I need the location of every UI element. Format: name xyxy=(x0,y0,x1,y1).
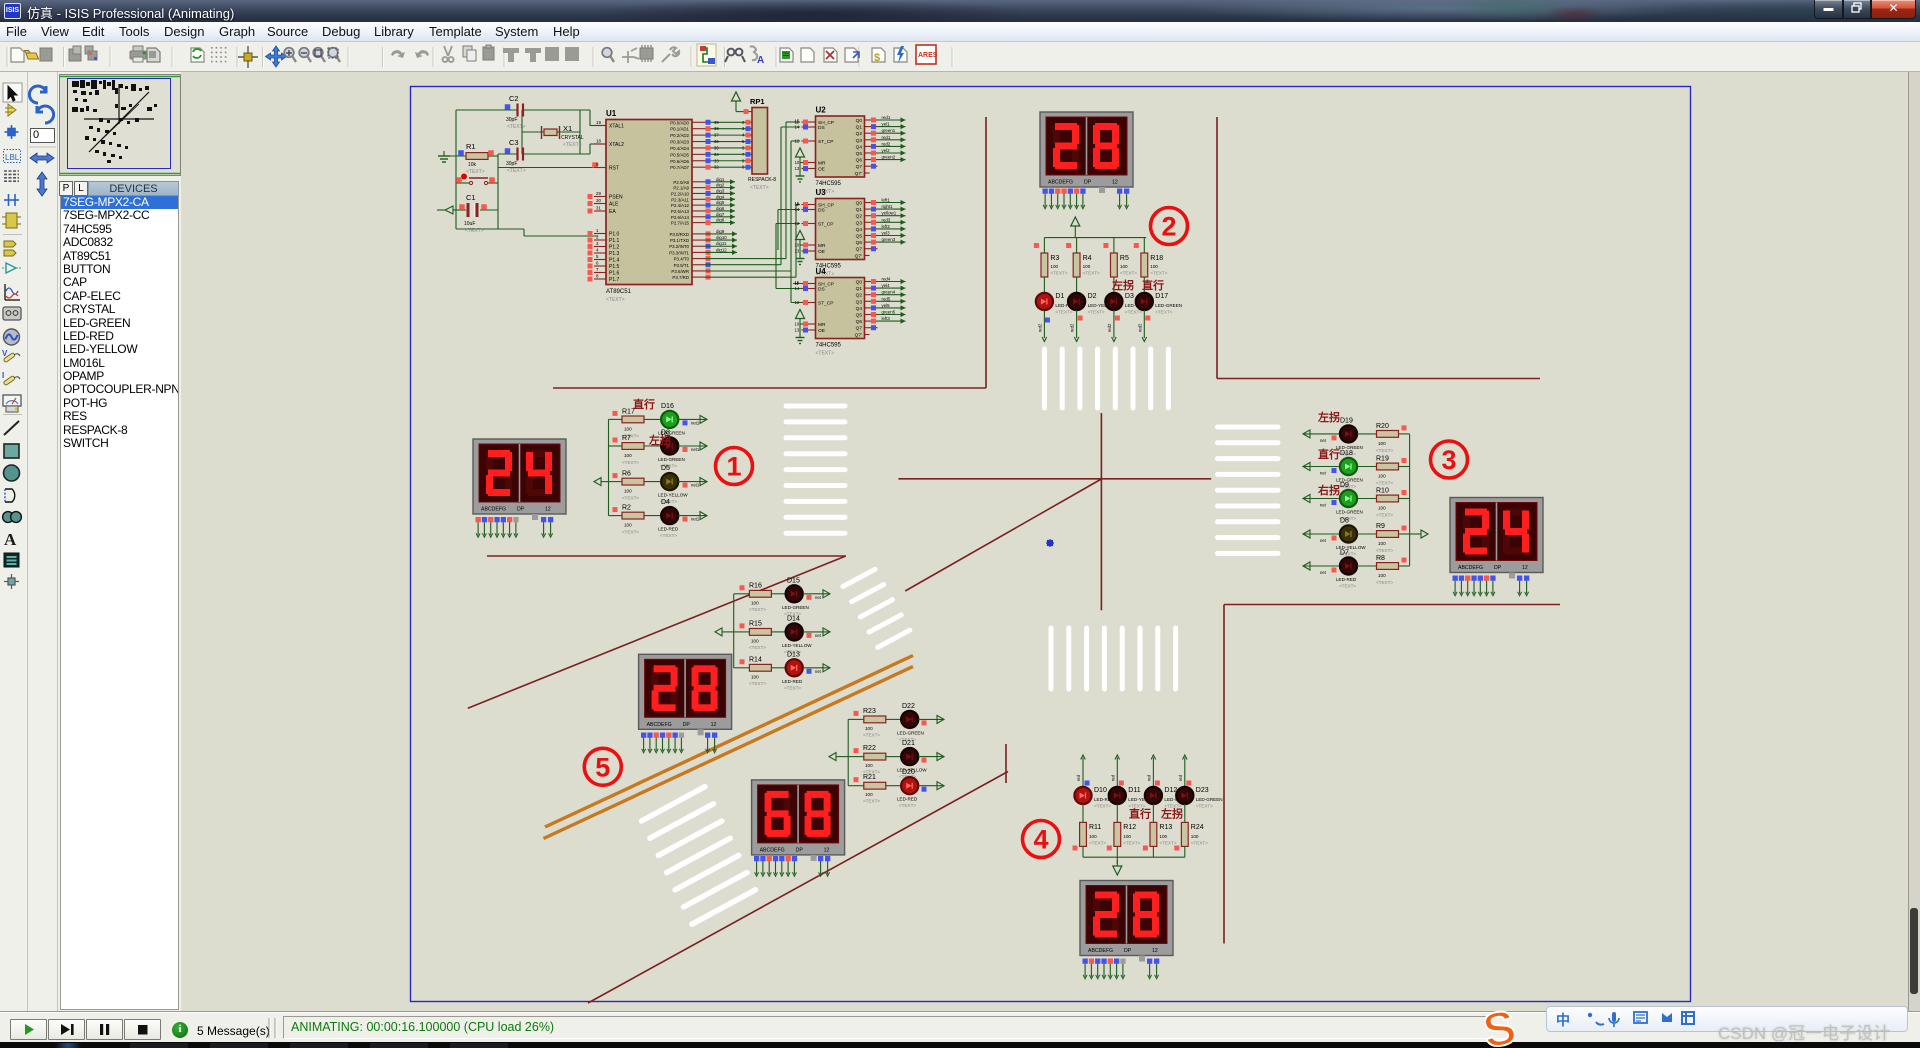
svg-text:dig5: dig5 xyxy=(716,200,725,205)
svg-text:net: net xyxy=(1320,438,1327,443)
svg-text:D16: D16 xyxy=(661,403,674,410)
svg-text:red4: red4 xyxy=(882,277,891,282)
svg-text:100: 100 xyxy=(624,523,632,528)
svg-text:Q1: Q1 xyxy=(856,207,863,213)
svg-text:D5: D5 xyxy=(661,465,670,472)
svg-text:D14: D14 xyxy=(787,615,800,622)
svg-text:P0.7/AD7: P0.7/AD7 xyxy=(670,165,689,170)
svg-text:P0.2/AD2: P0.2/AD2 xyxy=(670,133,689,138)
svg-text:30pF: 30pF xyxy=(506,161,517,167)
svg-text:10k: 10k xyxy=(468,162,477,168)
svg-text:100: 100 xyxy=(1120,264,1128,269)
svg-text:R22: R22 xyxy=(863,745,876,752)
svg-text:<TEXT>: <TEXT> xyxy=(863,732,880,737)
svg-text:LED-GREEN: LED-GREEN xyxy=(782,605,809,610)
svg-text:Q4: Q4 xyxy=(856,227,863,233)
svg-text:<TEXT>: <TEXT> xyxy=(465,228,484,234)
svg-text:Q6: Q6 xyxy=(856,240,863,246)
svg-text:DP: DP xyxy=(517,507,525,513)
svg-text:100: 100 xyxy=(1191,834,1199,839)
svg-text:18: 18 xyxy=(596,139,601,144)
svg-text:100: 100 xyxy=(865,792,873,797)
svg-text:38: 38 xyxy=(714,126,719,131)
svg-text:2: 2 xyxy=(596,235,599,240)
svg-text:100: 100 xyxy=(624,489,632,494)
svg-text:R10: R10 xyxy=(1376,488,1389,495)
svg-text:net: net xyxy=(815,669,822,674)
svg-text:R18: R18 xyxy=(1150,255,1163,262)
svg-text:<TEXT>: <TEXT> xyxy=(1150,271,1167,276)
svg-text:4: 4 xyxy=(1033,825,1048,855)
svg-text:DS: DS xyxy=(818,125,825,131)
svg-text:D20: D20 xyxy=(902,769,915,776)
svg-text:right1: right1 xyxy=(882,204,894,209)
svg-text:net: net xyxy=(1320,570,1327,575)
svg-text:red2: red2 xyxy=(1137,323,1142,332)
svg-text:yel4: yel4 xyxy=(882,283,891,288)
svg-text:dig11: dig11 xyxy=(716,241,727,246)
svg-text:10: 10 xyxy=(795,160,800,165)
svg-text:R2: R2 xyxy=(622,505,631,512)
svg-text:C1: C1 xyxy=(466,193,476,202)
svg-text:Q3: Q3 xyxy=(856,220,863,226)
svg-text:OE: OE xyxy=(818,328,825,334)
svg-text:R1: R1 xyxy=(466,142,476,151)
svg-text:32: 32 xyxy=(714,165,719,170)
svg-text:red1: red1 xyxy=(882,115,891,120)
svg-text:PSEN: PSEN xyxy=(609,195,623,201)
svg-text:green5: green5 xyxy=(882,310,896,315)
svg-text:D18: D18 xyxy=(1340,450,1353,457)
svg-text:直行: 直行 xyxy=(1129,807,1151,821)
svg-text:D13: D13 xyxy=(787,651,800,658)
svg-text:P0.3/AD3: P0.3/AD3 xyxy=(670,140,689,145)
svg-text:left1: left1 xyxy=(882,198,891,203)
svg-text:100: 100 xyxy=(751,600,759,605)
svg-text:D15: D15 xyxy=(787,577,800,584)
svg-text:dig6: dig6 xyxy=(716,206,725,211)
svg-text:30pF: 30pF xyxy=(506,117,517,123)
svg-text:12: 12 xyxy=(1152,948,1158,954)
svg-text:左拐: 左拐 xyxy=(1111,278,1134,292)
svg-text:D23: D23 xyxy=(1196,787,1209,794)
svg-text:LED-GREEN: LED-GREEN xyxy=(1196,797,1223,802)
svg-text:Q5: Q5 xyxy=(856,151,863,157)
svg-text:LED-GREEN: LED-GREEN xyxy=(897,730,924,735)
svg-text:R3: R3 xyxy=(1050,255,1059,262)
svg-text:ST_CP: ST_CP xyxy=(818,301,833,307)
svg-text:P2.1/A9: P2.1/A9 xyxy=(673,186,689,191)
svg-text:$: $ xyxy=(874,52,880,64)
svg-text:Q4: Q4 xyxy=(856,144,863,150)
svg-text:D11: D11 xyxy=(1128,787,1140,794)
svg-text:U3: U3 xyxy=(816,188,827,197)
svg-text:R20: R20 xyxy=(1376,423,1389,430)
svg-text:右拐: 右拐 xyxy=(1317,483,1340,497)
svg-text:Q0: Q0 xyxy=(856,118,863,124)
svg-text:12: 12 xyxy=(824,847,830,853)
svg-text:RESPACK-8: RESPACK-8 xyxy=(748,177,776,183)
svg-text:<TEXT>: <TEXT> xyxy=(1159,841,1176,846)
svg-text:8: 8 xyxy=(596,274,599,279)
svg-text:15: 15 xyxy=(795,119,800,124)
svg-text:XTAL1: XTAL1 xyxy=(609,124,624,130)
svg-text:<TEXT>: <TEXT> xyxy=(507,124,526,130)
svg-text:D22: D22 xyxy=(902,703,915,710)
svg-text:P3.3/INT1: P3.3/INT1 xyxy=(669,250,689,255)
svg-text:yel3: yel3 xyxy=(882,231,891,236)
svg-text:dig7: dig7 xyxy=(716,212,725,217)
svg-text:Q7: Q7 xyxy=(856,326,863,332)
svg-text:1: 1 xyxy=(596,228,599,233)
svg-text:R12: R12 xyxy=(1123,824,1136,831)
svg-text:yel2: yel2 xyxy=(882,148,891,153)
svg-text:<TEXT>: <TEXT> xyxy=(1120,271,1137,276)
svg-text:100: 100 xyxy=(1089,834,1097,839)
svg-text:100: 100 xyxy=(751,674,759,679)
svg-text:<TEXT>: <TEXT> xyxy=(660,533,677,538)
svg-text:ARES: ARES xyxy=(918,52,938,59)
svg-text:19: 19 xyxy=(596,120,601,125)
svg-text:100: 100 xyxy=(1378,441,1386,446)
svg-text:R16: R16 xyxy=(749,582,762,589)
svg-text:<TEXT>: <TEXT> xyxy=(563,142,582,148)
svg-text:<TEXT>: <TEXT> xyxy=(507,168,526,174)
svg-text:R24: R24 xyxy=(1191,824,1204,831)
svg-text:ABCDEFG: ABCDEFG xyxy=(1458,565,1483,571)
svg-text:Q6: Q6 xyxy=(856,319,863,325)
svg-text:DP: DP xyxy=(1084,180,1092,186)
svg-text:13: 13 xyxy=(795,249,800,254)
svg-text:7: 7 xyxy=(596,267,599,272)
svg-text:<TEXT>: <TEXT> xyxy=(622,460,639,465)
svg-text:15: 15 xyxy=(795,201,800,206)
svg-text:U4: U4 xyxy=(816,267,827,276)
svg-text:Q7: Q7 xyxy=(856,247,863,253)
svg-text:R19: R19 xyxy=(1376,456,1389,463)
svg-text:100: 100 xyxy=(1083,264,1091,269)
svg-text:D17: D17 xyxy=(1155,293,1168,300)
svg-text:37: 37 xyxy=(714,133,719,138)
svg-text:red2: red2 xyxy=(882,141,891,146)
svg-text:<TEXT>: <TEXT> xyxy=(1376,481,1393,486)
svg-text:OE: OE xyxy=(818,249,825,255)
svg-text:red3: red3 xyxy=(882,217,891,222)
svg-text:Q1: Q1 xyxy=(856,286,863,292)
svg-text:D2: D2 xyxy=(1088,293,1097,300)
svg-text:P0.6/AD6: P0.6/AD6 xyxy=(670,159,689,164)
svg-text:P0.1/AD1: P0.1/AD1 xyxy=(670,127,689,132)
svg-text:<TEXT>: <TEXT> xyxy=(1050,271,1067,276)
svg-text:net1: net1 xyxy=(691,447,700,452)
svg-text:P2.3/A11: P2.3/A11 xyxy=(671,197,689,202)
svg-text:P1.2: P1.2 xyxy=(609,245,620,251)
svg-text:R5: R5 xyxy=(1120,255,1129,262)
svg-text:red: red xyxy=(1110,774,1115,781)
svg-text:左拐: 左拐 xyxy=(1317,410,1340,424)
svg-text:red: red xyxy=(1146,774,1151,781)
svg-text:12: 12 xyxy=(795,300,800,305)
svg-text:ST_CP: ST_CP xyxy=(818,139,833,145)
svg-text:DP: DP xyxy=(683,722,691,728)
svg-text:10: 10 xyxy=(795,322,800,327)
svg-text:<TEXT>: <TEXT> xyxy=(1094,804,1111,809)
svg-text:100: 100 xyxy=(865,763,873,768)
svg-text:C3: C3 xyxy=(509,138,519,147)
svg-text:<TEXT>: <TEXT> xyxy=(1123,841,1140,846)
svg-text:<TEXT>: <TEXT> xyxy=(1055,310,1072,315)
svg-text:P1.0: P1.0 xyxy=(609,232,620,238)
svg-text:dig9: dig9 xyxy=(716,229,725,234)
svg-text:ABCDEFG: ABCDEFG xyxy=(1088,948,1113,954)
svg-text:P3.1/TXD: P3.1/TXD xyxy=(670,238,689,243)
svg-text:P1.6: P1.6 xyxy=(609,271,620,277)
svg-text:D21: D21 xyxy=(902,740,915,747)
svg-text:ABCDEFG: ABCDEFG xyxy=(647,722,672,728)
svg-text:P3.7/RD: P3.7/RD xyxy=(672,275,689,280)
svg-text:X1: X1 xyxy=(563,124,572,133)
svg-text:D7: D7 xyxy=(1340,550,1349,557)
svg-text:R6: R6 xyxy=(622,471,631,478)
svg-text:D3: D3 xyxy=(1125,293,1134,300)
svg-text:dig1: dig1 xyxy=(716,177,725,182)
svg-text:P2.5/A13: P2.5/A13 xyxy=(671,209,690,214)
svg-text:dig2: dig2 xyxy=(716,183,725,188)
svg-text:R21: R21 xyxy=(863,774,876,781)
svg-text:net1: net1 xyxy=(691,517,700,522)
svg-text:D10: D10 xyxy=(1094,787,1107,794)
svg-text:36: 36 xyxy=(714,139,719,144)
svg-text:R11: R11 xyxy=(1089,824,1101,831)
svg-text:<TEXT>: <TEXT> xyxy=(749,607,766,612)
svg-text:14: 14 xyxy=(795,125,800,130)
svg-text:net1: net1 xyxy=(691,420,700,425)
svg-text:左拐: 左拐 xyxy=(648,433,671,447)
svg-text:12: 12 xyxy=(711,722,717,728)
svg-text:100: 100 xyxy=(1378,541,1386,546)
svg-text:D9: D9 xyxy=(1340,482,1349,489)
svg-text:LED-GREEN: LED-GREEN xyxy=(1155,303,1182,308)
svg-text:34: 34 xyxy=(714,152,719,157)
svg-text:100: 100 xyxy=(624,426,632,431)
svg-text:left3: left3 xyxy=(882,316,891,321)
svg-text:dig8: dig8 xyxy=(716,218,725,223)
svg-text:R4: R4 xyxy=(1083,255,1092,262)
svg-text:net1: net1 xyxy=(691,483,700,488)
svg-text:14: 14 xyxy=(795,286,800,291)
svg-text:3: 3 xyxy=(596,241,599,246)
svg-text:ALE: ALE xyxy=(609,202,619,208)
svg-text:1: 1 xyxy=(726,452,741,482)
svg-text:LED-YELLOW: LED-YELLOW xyxy=(658,493,688,498)
svg-text:P2.0/A8: P2.0/A8 xyxy=(673,180,689,185)
svg-text:Q1: Q1 xyxy=(856,125,863,131)
svg-text:ABCDEFG: ABCDEFG xyxy=(481,507,506,513)
svg-text:ABCDEFG: ABCDEFG xyxy=(1048,180,1073,186)
svg-text:Q7: Q7 xyxy=(856,164,863,170)
svg-text:100: 100 xyxy=(865,726,873,731)
svg-text:P3.5/T1: P3.5/T1 xyxy=(674,263,690,268)
svg-text:12: 12 xyxy=(795,221,800,226)
svg-text:red2: red2 xyxy=(1037,323,1042,332)
svg-text:red: red xyxy=(1178,774,1183,781)
svg-text:DS: DS xyxy=(818,287,825,293)
svg-text:Q6: Q6 xyxy=(856,158,863,164)
svg-text:red2: red2 xyxy=(1070,323,1075,332)
svg-text:<TEXT>: <TEXT> xyxy=(1376,513,1393,518)
svg-text:LED-RED: LED-RED xyxy=(1336,577,1357,582)
svg-text:33: 33 xyxy=(714,158,719,163)
svg-text:74HC595: 74HC595 xyxy=(816,181,842,187)
svg-text:RST: RST xyxy=(609,166,619,172)
svg-text:100: 100 xyxy=(1123,834,1131,839)
svg-text:Q3: Q3 xyxy=(856,138,863,144)
svg-text:green1: green1 xyxy=(882,128,896,133)
svg-text:4: 4 xyxy=(596,248,599,253)
svg-text:red1: red1 xyxy=(882,135,891,140)
svg-text:MR: MR xyxy=(818,161,826,167)
svg-text:DS: DS xyxy=(818,208,825,214)
svg-text:EA: EA xyxy=(609,209,616,215)
svg-text:A: A xyxy=(757,55,764,66)
svg-text:dig4: dig4 xyxy=(716,194,725,199)
svg-text:<TEXT>: <TEXT> xyxy=(749,645,766,650)
svg-text:CRYSTAL: CRYSTAL xyxy=(561,135,584,141)
svg-text:<TEXT>: <TEXT> xyxy=(899,803,916,808)
svg-text:100: 100 xyxy=(751,638,759,643)
svg-text:LED-RED: LED-RED xyxy=(782,679,803,684)
svg-text:14: 14 xyxy=(795,207,800,212)
svg-text:OE: OE xyxy=(818,167,825,173)
svg-text:12: 12 xyxy=(795,139,800,144)
svg-text:<TEXT>: <TEXT> xyxy=(1191,841,1208,846)
svg-text:13: 13 xyxy=(795,166,800,171)
svg-text:<TEXT>: <TEXT> xyxy=(1339,584,1356,589)
svg-text:10: 10 xyxy=(795,243,800,248)
svg-text:P3.0/RXD: P3.0/RXD xyxy=(669,232,689,237)
svg-text:Q7': Q7' xyxy=(855,254,862,260)
svg-text:net: net xyxy=(1320,471,1327,476)
svg-text:P2.2/A10: P2.2/A10 xyxy=(671,191,690,196)
svg-text:31: 31 xyxy=(596,206,601,211)
svg-text:2: 2 xyxy=(1161,212,1176,242)
svg-text:Q5: Q5 xyxy=(856,234,863,240)
svg-text:yel5: yel5 xyxy=(882,303,891,308)
svg-text:<TEXT>: <TEXT> xyxy=(1088,310,1105,315)
svg-text:LED-GREEN: LED-GREEN xyxy=(1336,510,1363,515)
svg-text:P2.7/A15: P2.7/A15 xyxy=(671,221,690,226)
svg-text:net: net xyxy=(815,633,822,638)
svg-text:12: 12 xyxy=(1112,180,1118,186)
svg-text:<TEXT>: <TEXT> xyxy=(1376,580,1393,585)
svg-text:Q7': Q7' xyxy=(855,333,862,339)
svg-text:ST_CP: ST_CP xyxy=(818,222,833,228)
svg-text:直行: 直行 xyxy=(1142,278,1164,292)
svg-text:R7: R7 xyxy=(622,435,631,442)
svg-text:I: I xyxy=(2,371,4,380)
svg-text:dig3: dig3 xyxy=(716,188,725,193)
svg-text:P3.2/INT0: P3.2/INT0 xyxy=(669,244,689,249)
svg-text:100: 100 xyxy=(624,453,632,458)
svg-text:<TEXT>: <TEXT> xyxy=(1089,841,1106,846)
svg-text:LED-YELLOW: LED-YELLOW xyxy=(782,643,812,648)
svg-text:直行: 直行 xyxy=(633,397,655,411)
svg-text:左拐: 左拐 xyxy=(1160,807,1183,821)
svg-text:P1.3: P1.3 xyxy=(609,251,620,257)
svg-text:A: A xyxy=(4,530,17,549)
svg-text:100: 100 xyxy=(1378,474,1386,479)
svg-text:C2: C2 xyxy=(509,94,519,103)
svg-text:Q0: Q0 xyxy=(856,201,863,207)
svg-text:12: 12 xyxy=(1522,565,1528,571)
svg-text:<TEXT>: <TEXT> xyxy=(1155,310,1172,315)
svg-text:10uF: 10uF xyxy=(464,221,475,227)
svg-text:P2.6/A14: P2.6/A14 xyxy=(671,215,690,220)
svg-text:Q5: Q5 xyxy=(856,313,863,319)
svg-text:9: 9 xyxy=(596,162,599,167)
svg-text:net: net xyxy=(1320,538,1327,543)
svg-text:DP: DP xyxy=(1494,565,1502,571)
svg-text:DP: DP xyxy=(1124,948,1132,954)
svg-text:Q2: Q2 xyxy=(856,293,863,299)
svg-text:13: 13 xyxy=(795,328,800,333)
svg-text:R14: R14 xyxy=(749,656,762,663)
svg-text:net: net xyxy=(815,595,822,600)
svg-text:dig12: dig12 xyxy=(716,247,727,252)
svg-text:S: S xyxy=(1479,1006,1520,1048)
svg-text:<TEXT>: <TEXT> xyxy=(1083,271,1100,276)
svg-text:U2: U2 xyxy=(816,106,827,115)
svg-text:ABCDEFG: ABCDEFG xyxy=(760,847,785,853)
svg-text:D1: D1 xyxy=(1055,293,1064,300)
svg-text:5: 5 xyxy=(596,254,599,259)
svg-text:LED-RED: LED-RED xyxy=(658,527,679,532)
svg-text:P3.4/T0: P3.4/T0 xyxy=(674,257,690,262)
svg-text:P2.4/A12: P2.4/A12 xyxy=(671,203,690,208)
svg-text:<TEXT>: <TEXT> xyxy=(1125,310,1142,315)
svg-text:green3: green3 xyxy=(882,237,896,242)
svg-text:39: 39 xyxy=(714,120,719,125)
svg-text:Q0: Q0 xyxy=(856,280,863,286)
svg-text:<TEXT>: <TEXT> xyxy=(784,685,801,690)
svg-text:R13: R13 xyxy=(1159,824,1172,831)
svg-text:R15: R15 xyxy=(749,620,762,627)
svg-text:<TEXT>: <TEXT> xyxy=(466,169,485,175)
svg-text:yellow1: yellow1 xyxy=(882,211,897,216)
svg-text:12: 12 xyxy=(545,507,551,513)
svg-text:yel1: yel1 xyxy=(882,122,891,127)
svg-text:<TEXT>: <TEXT> xyxy=(1196,804,1213,809)
svg-text:LED-GREEN: LED-GREEN xyxy=(658,457,685,462)
svg-text:35: 35 xyxy=(714,145,719,150)
svg-text:3: 3 xyxy=(1441,445,1456,475)
svg-text:100: 100 xyxy=(1378,573,1386,578)
svg-text:D4: D4 xyxy=(661,499,670,506)
svg-text:Q7': Q7' xyxy=(855,171,862,177)
svg-text:100: 100 xyxy=(1378,506,1386,511)
svg-text:6: 6 xyxy=(596,261,599,266)
svg-text:net: net xyxy=(1320,503,1327,508)
svg-text:P1.7: P1.7 xyxy=(609,277,620,283)
svg-text:P1.4: P1.4 xyxy=(609,258,620,264)
svg-text:P0.5/AD5: P0.5/AD5 xyxy=(670,152,689,157)
svg-text:<TEXT>: <TEXT> xyxy=(622,530,639,535)
svg-text:<TEXT>: <TEXT> xyxy=(863,799,880,804)
svg-text:100: 100 xyxy=(1159,834,1167,839)
svg-text:100: 100 xyxy=(1150,264,1158,269)
svg-text:74HC595: 74HC595 xyxy=(816,343,842,349)
svg-text:D19: D19 xyxy=(1340,417,1353,424)
